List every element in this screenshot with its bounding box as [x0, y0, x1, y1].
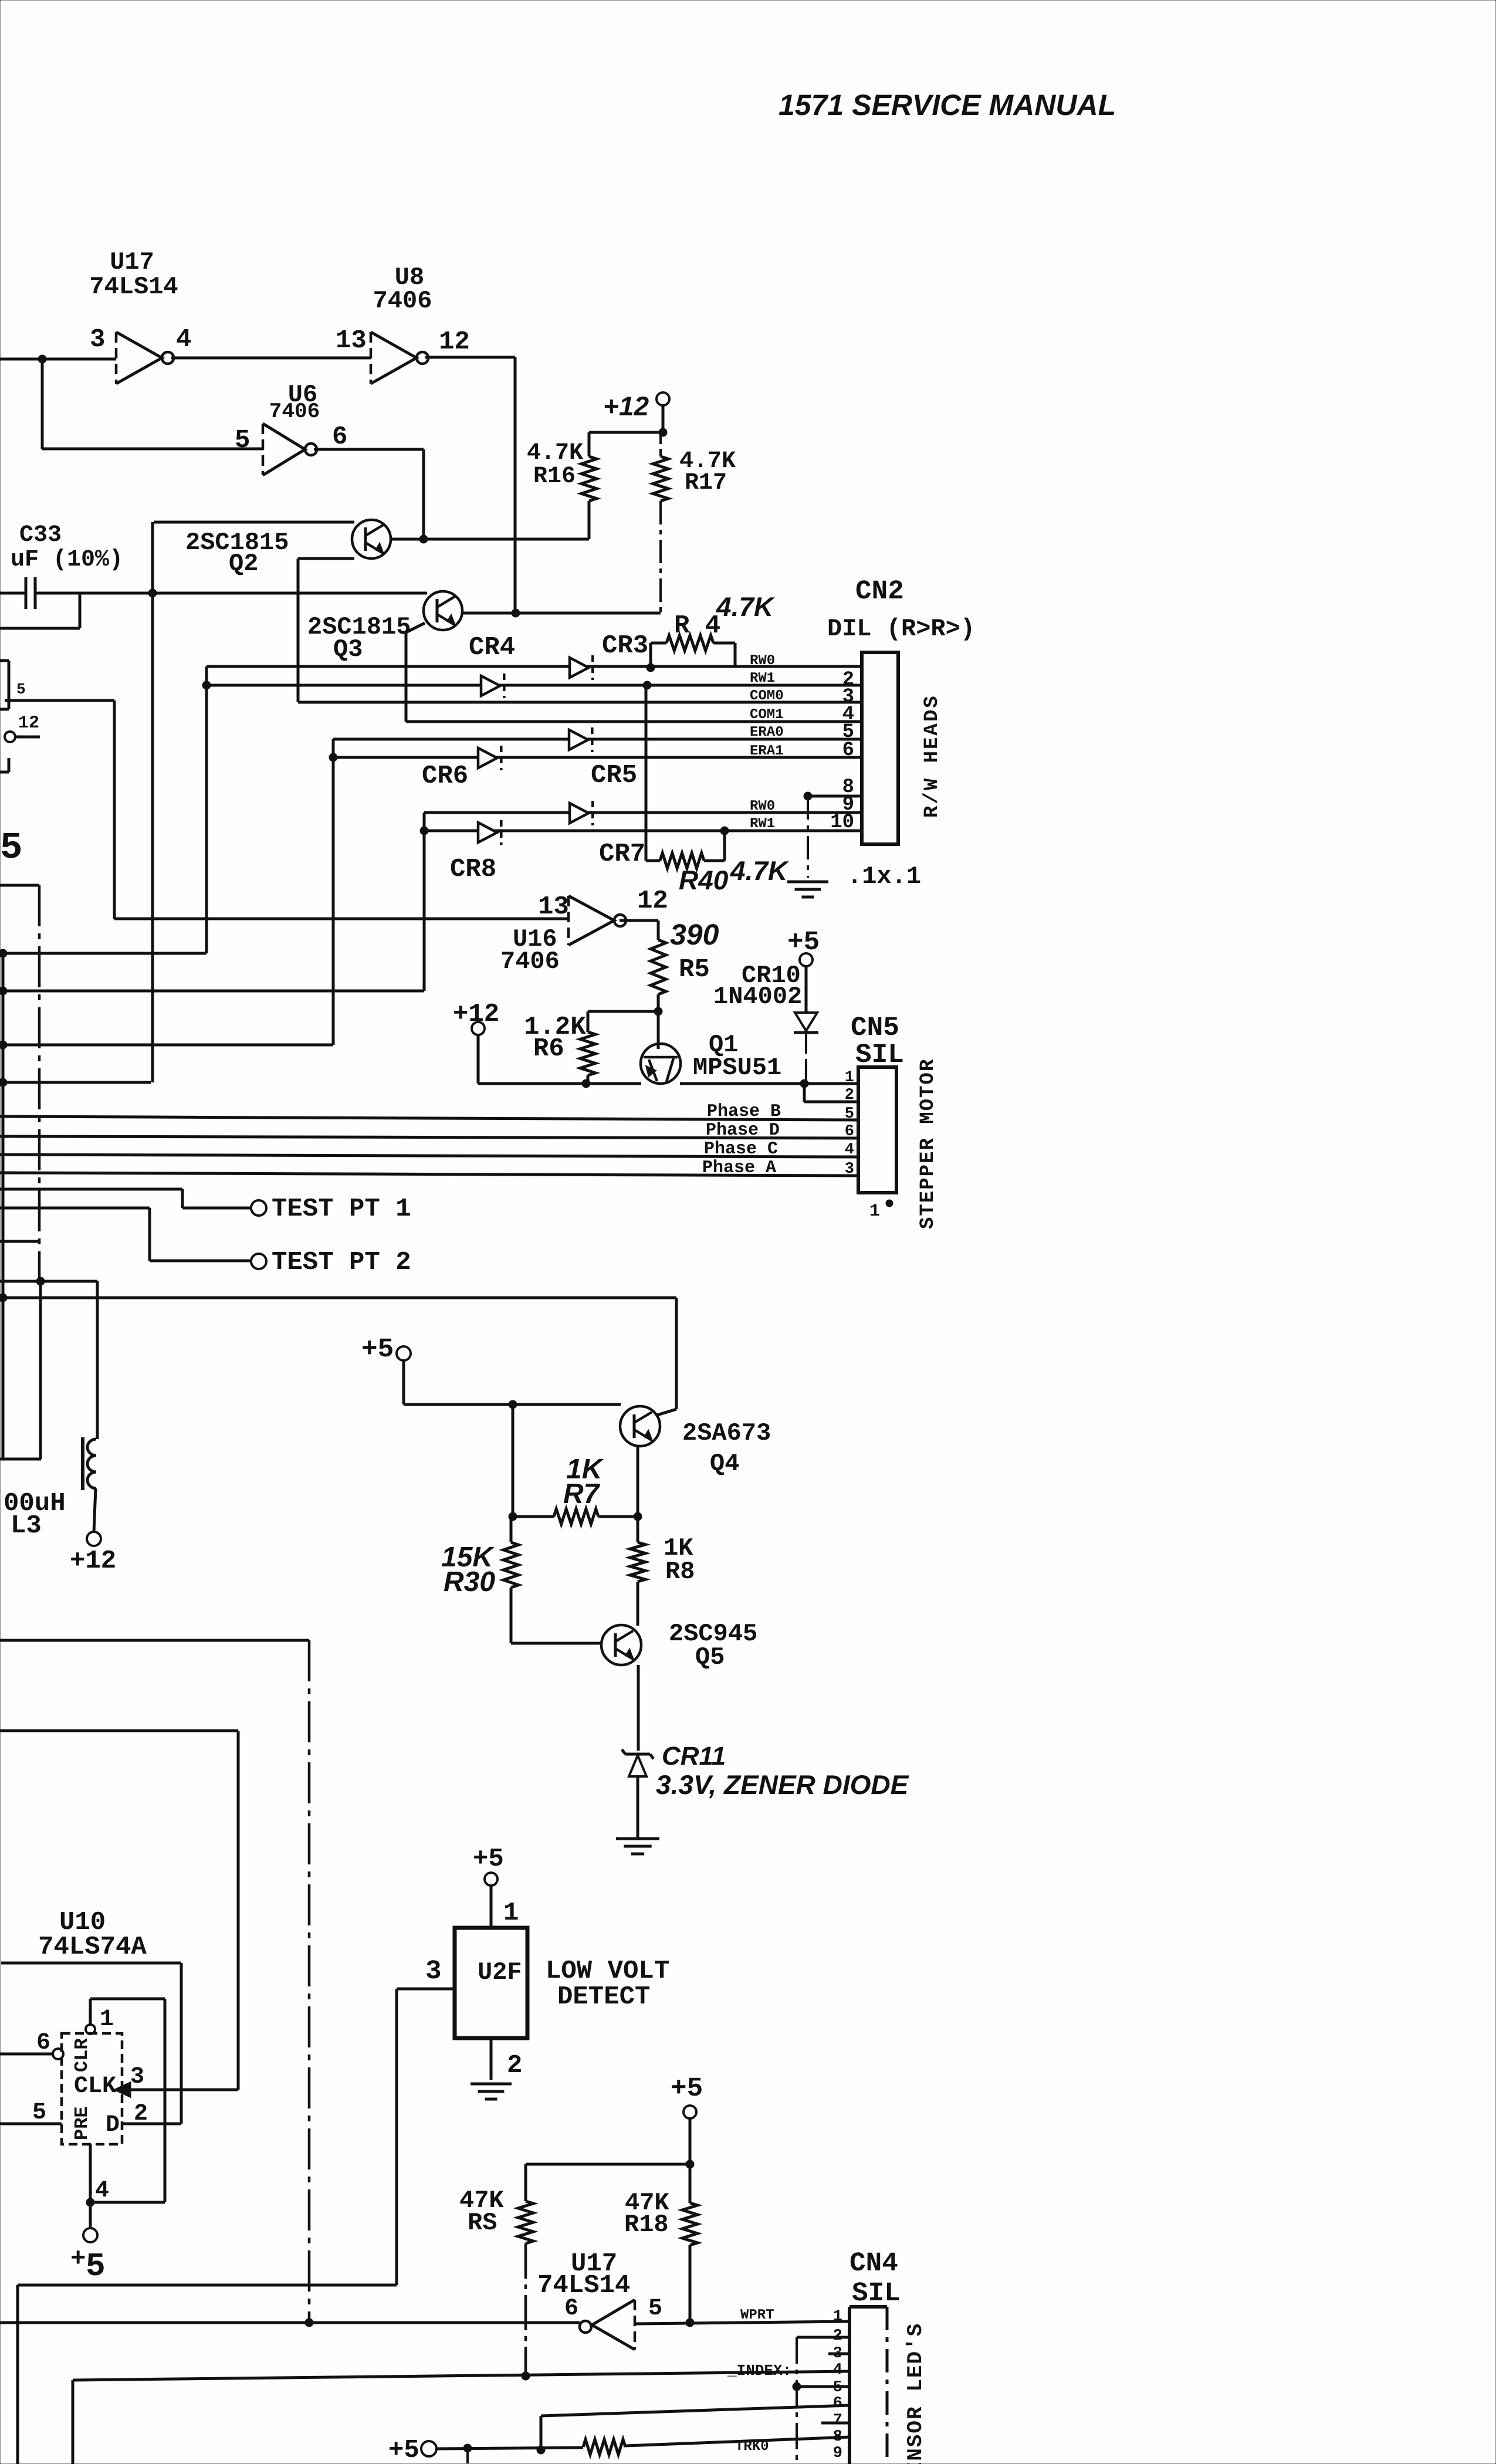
svg-text:2SA673: 2SA673	[682, 1419, 771, 1447]
svg-text:12: 12	[439, 327, 470, 357]
svg-text:Q4: Q4	[710, 1450, 739, 1478]
svg-text:13: 13	[538, 892, 569, 922]
svg-text:ERA1: ERA1	[750, 743, 784, 759]
svg-text:3: 3	[130, 2064, 144, 2090]
svg-text:5: 5	[86, 2248, 106, 2285]
svg-text:R17: R17	[685, 470, 727, 496]
svg-text:CR11: CR11	[662, 1742, 726, 1771]
svg-text:LOW VOLT: LOW VOLT	[546, 1957, 669, 1986]
svg-text:5: 5	[0, 827, 22, 869]
svg-text:CR5: CR5	[591, 761, 637, 790]
svg-text:R5: R5	[679, 955, 710, 984]
svg-text:1: 1	[503, 1898, 519, 1928]
svg-text:Phase D: Phase D	[706, 1121, 780, 1140]
svg-text:Q2: Q2	[229, 550, 258, 578]
svg-text:1: 1	[833, 2308, 842, 2326]
svg-text:4.7K: 4.7K	[730, 855, 789, 886]
svg-text:U2F: U2F	[478, 1958, 522, 1986]
svg-text:390: 390	[670, 918, 719, 951]
svg-text:.1x.1: .1x.1	[847, 862, 921, 891]
svg-text:1: 1	[100, 2006, 114, 2033]
svg-text:4.7K: 4.7K	[716, 591, 775, 622]
svg-text:CR7: CR7	[599, 840, 645, 869]
svg-text:C33: C33	[19, 522, 62, 549]
svg-text:D: D	[106, 2112, 120, 2138]
svg-text:Q3: Q3	[333, 635, 363, 664]
svg-text:3.3V, ZENER DIODE: 3.3V, ZENER DIODE	[656, 1769, 909, 1800]
svg-text:12: 12	[18, 713, 39, 733]
svg-text:5: 5	[16, 681, 26, 698]
svg-text:R18: R18	[624, 2211, 669, 2239]
svg-text:12: 12	[637, 886, 668, 916]
svg-text:Q5: Q5	[695, 1643, 725, 1671]
svg-text:5: 5	[648, 2296, 662, 2322]
svg-text:MPSU51: MPSU51	[693, 1054, 781, 1082]
svg-text:3: 3	[90, 325, 105, 354]
svg-text:3: 3	[425, 1956, 442, 1986]
svg-text:+5: +5	[388, 2436, 419, 2464]
svg-text:4: 4	[176, 325, 191, 354]
svg-text:+12: +12	[453, 1000, 499, 1029]
svg-text:STEPPER MOTOR: STEPPER MOTOR	[917, 1058, 939, 1229]
svg-text:2: 2	[845, 1087, 854, 1104]
svg-text:2: 2	[507, 2051, 522, 2080]
svg-text:+12: +12	[603, 391, 649, 421]
svg-text:4.7K: 4.7K	[527, 440, 583, 466]
svg-text:RW0: RW0	[750, 653, 775, 669]
svg-text:CR6: CR6	[422, 761, 468, 791]
svg-text:+5: +5	[361, 1334, 394, 1365]
svg-text:CLK: CLK	[74, 2073, 116, 2100]
svg-text:R7: R7	[563, 1478, 601, 1509]
svg-text:CLR: CLR	[71, 2038, 93, 2072]
svg-text:TEST PT 2: TEST PT 2	[272, 1248, 411, 1277]
svg-text:L3: L3	[11, 1511, 42, 1541]
svg-text:1571 SERVICE MANUAL: 1571 SERVICE MANUAL	[779, 89, 1116, 121]
svg-text:9: 9	[833, 2445, 842, 2462]
svg-text:+12: +12	[70, 1546, 116, 1576]
svg-text:1N4002: 1N4002	[713, 983, 802, 1011]
svg-text:SIL: SIL	[855, 1040, 904, 1070]
svg-text:CR8: CR8	[450, 855, 496, 884]
svg-text:RW0: RW0	[750, 798, 775, 814]
svg-text:SENSOR LED'S: SENSOR LED'S	[903, 2323, 928, 2464]
svg-text:ERA0: ERA0	[750, 725, 784, 740]
svg-text:uF (10%): uF (10%)	[11, 547, 123, 573]
svg-text:74LS14: 74LS14	[89, 273, 178, 301]
svg-text:74LS74A: 74LS74A	[38, 1932, 147, 1962]
svg-text:PRE: PRE	[71, 2106, 93, 2140]
svg-text:13: 13	[336, 326, 367, 356]
svg-text:CN2: CN2	[855, 576, 904, 607]
svg-text:RW1: RW1	[750, 671, 775, 686]
svg-text:_INDEX:: _INDEX:	[727, 2362, 791, 2380]
svg-text:4: 4	[95, 2178, 109, 2204]
svg-text:R30: R30	[444, 1566, 495, 1597]
svg-text:+5: +5	[671, 2073, 703, 2104]
svg-text:7: 7	[833, 2412, 842, 2429]
svg-text:Phase B: Phase B	[707, 1102, 781, 1122]
svg-text:WPRT: WPRT	[740, 2307, 774, 2323]
svg-text:2: 2	[134, 2101, 148, 2127]
svg-text:5: 5	[32, 2100, 46, 2126]
svg-text:R/W HEADS: R/W HEADS	[921, 694, 943, 818]
svg-text:COM0: COM0	[750, 688, 784, 704]
svg-text:7406: 7406	[500, 947, 560, 976]
svg-text:RS: RS	[468, 2209, 497, 2237]
svg-text:CN4: CN4	[849, 2248, 898, 2279]
svg-text:1: 1	[845, 1069, 854, 1087]
svg-text:R8: R8	[665, 1558, 695, 1586]
svg-text:DETECT: DETECT	[557, 1982, 650, 2012]
svg-text:R6: R6	[533, 1034, 564, 1064]
svg-text:5: 5	[235, 426, 250, 455]
svg-text:6: 6	[332, 422, 347, 452]
svg-text:+: +	[70, 2245, 86, 2274]
svg-text:SIL: SIL	[852, 2278, 901, 2309]
svg-text:RW1: RW1	[750, 816, 775, 832]
svg-text:TRK0: TRK0	[735, 2439, 769, 2455]
svg-text:CR4: CR4	[469, 633, 515, 662]
svg-text:CR3: CR3	[602, 631, 648, 661]
svg-text:10: 10	[830, 811, 854, 834]
svg-text:R16: R16	[533, 463, 576, 490]
svg-text:7406: 7406	[269, 400, 320, 424]
svg-text:6: 6	[36, 2030, 50, 2056]
svg-text:U17: U17	[110, 248, 154, 276]
svg-text:74LS14: 74LS14	[537, 2271, 630, 2300]
svg-text:Phase A: Phase A	[702, 1158, 776, 1178]
svg-text:6: 6	[564, 2296, 578, 2322]
svg-text:6: 6	[842, 739, 854, 761]
svg-text:6: 6	[833, 2395, 842, 2412]
svg-text:CN5: CN5	[851, 1013, 899, 1043]
svg-text:+5: +5	[473, 1844, 504, 1874]
svg-text:R40: R40	[679, 865, 729, 895]
svg-text:COM1: COM1	[750, 707, 784, 723]
svg-text:7406: 7406	[373, 287, 432, 315]
svg-text:DIL (R>R>): DIL (R>R>)	[827, 615, 975, 643]
svg-text:Phase C: Phase C	[704, 1139, 778, 1159]
svg-text:TEST PT 1: TEST PT 1	[272, 1194, 411, 1224]
svg-text:1: 1	[869, 1201, 880, 1221]
